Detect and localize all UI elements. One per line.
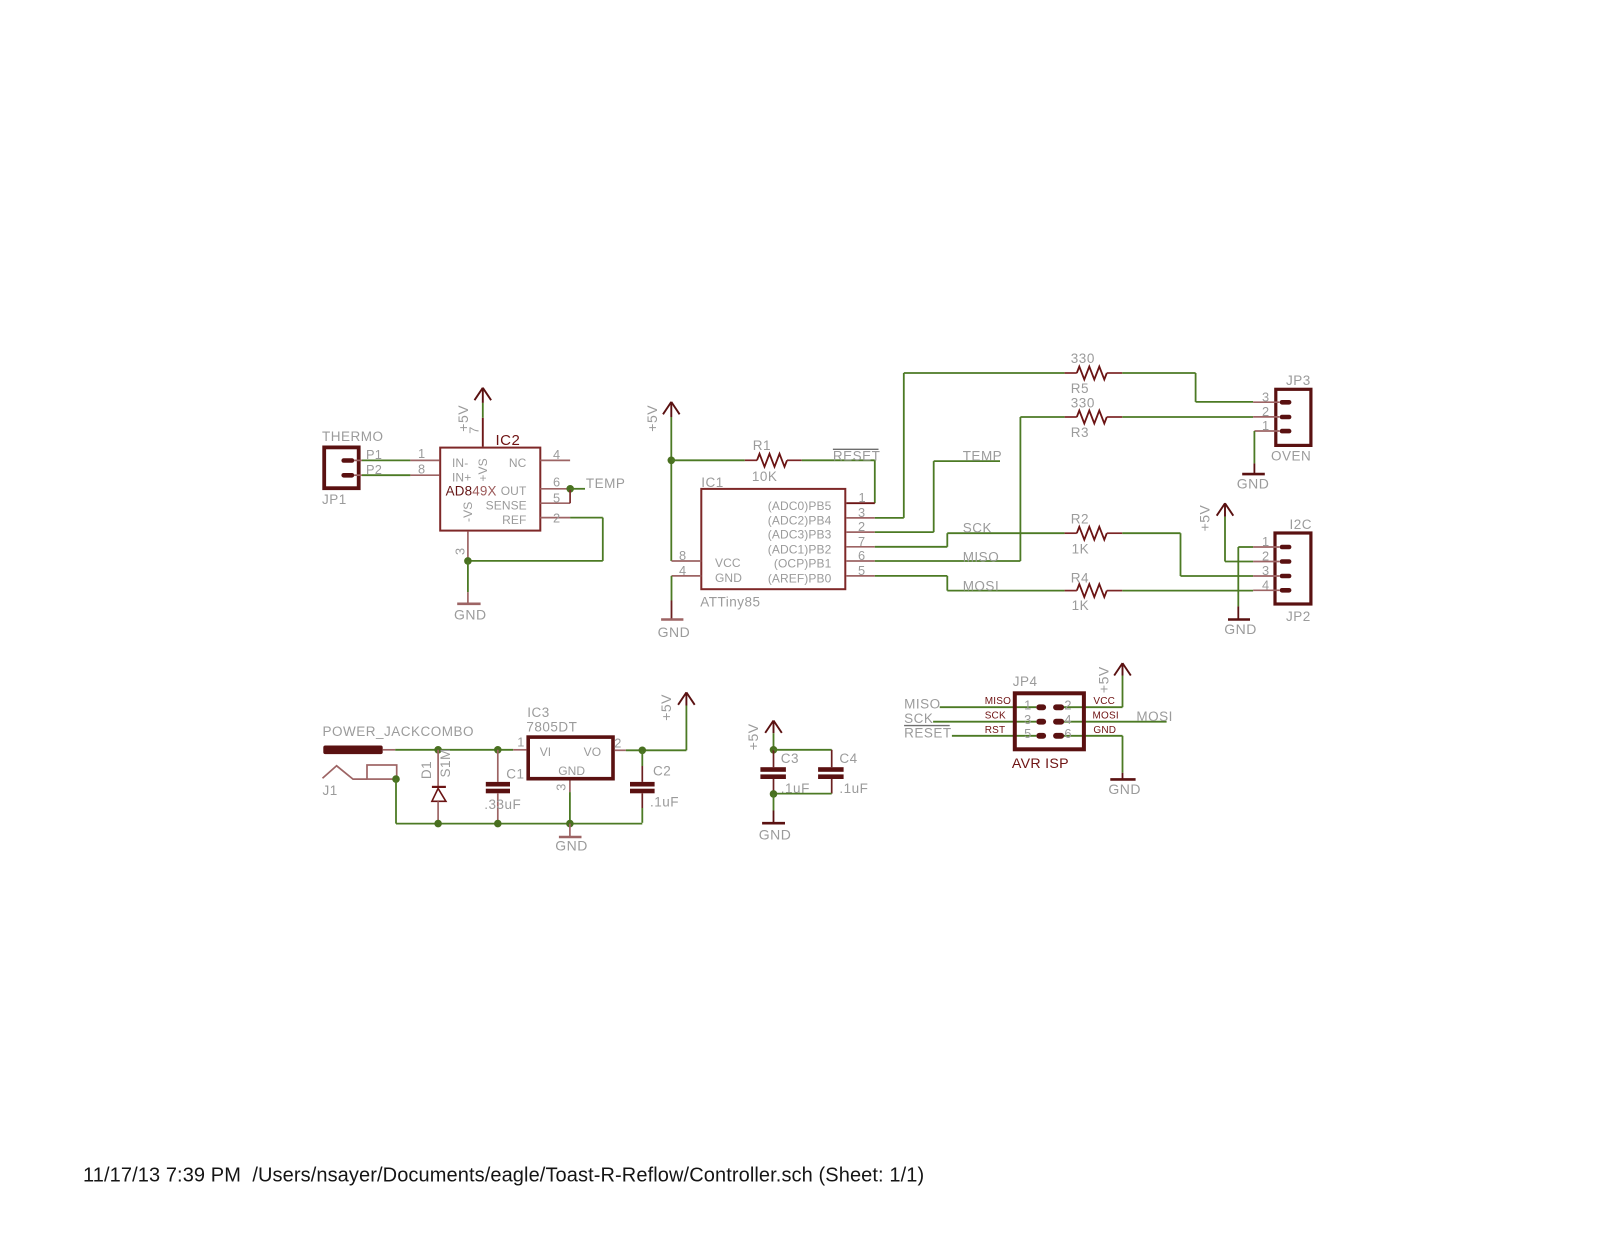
svg-text:1: 1	[1024, 698, 1031, 713]
svg-text:NC: NC	[509, 456, 527, 470]
svg-text:S1M: S1M	[438, 748, 453, 777]
value 330 (R5)	[1071, 351, 1095, 366]
IC2 pin 4 NC lead	[540, 459, 570, 461]
pin number 3 (JP4)	[1024, 712, 1031, 727]
value 10K	[752, 469, 778, 484]
IC2 pin 6 OUT lead	[540, 488, 566, 490]
svg-text:+5V: +5V	[1196, 504, 1212, 531]
JP4 pad 5	[1036, 733, 1046, 739]
pin number 4 (JP4)	[1064, 712, 1071, 727]
label +5V (IC3)	[658, 694, 674, 721]
IC2 pin 3 lead	[467, 532, 469, 561]
wire +5V to C3	[773, 733, 775, 750]
JP4 pin name RST	[985, 725, 1006, 736]
svg-text:1: 1	[1262, 534, 1269, 549]
J1 pin lead	[383, 749, 396, 751]
svg-text:.33uF: .33uF	[484, 797, 521, 812]
svg-text:IN+: IN+	[452, 471, 471, 485]
value 7805DT	[526, 720, 577, 735]
svg-text:10K: 10K	[752, 469, 778, 484]
svg-text:OVEN: OVEN	[1271, 449, 1311, 464]
svg-text:-VS: -VS	[461, 502, 475, 522]
svg-text:2: 2	[1064, 698, 1071, 713]
connector JP2	[1275, 533, 1311, 604]
svg-text:MOSI: MOSI	[963, 578, 1000, 593]
label GND (JP4)	[1108, 781, 1141, 797]
JP2 pin 1 lead	[1253, 546, 1280, 548]
resistor R2	[1065, 527, 1123, 540]
svg-text:1: 1	[517, 735, 524, 750]
IC1 pin 3 lead	[846, 517, 875, 519]
label +5V (JP2)	[1196, 504, 1212, 531]
wire +5V to R1	[671, 459, 745, 461]
net label RESET (JP4)	[904, 725, 952, 740]
wire C3 top to C4 top	[774, 749, 832, 751]
label GND (IC2)	[454, 606, 487, 622]
svg-text:R3: R3	[1071, 425, 1089, 440]
ground symbol (C3)	[762, 811, 785, 824]
wire MISO to JP4 pin 1	[940, 706, 1037, 708]
svg-text:RESET: RESET	[904, 725, 952, 740]
net label MISO (JP4)	[904, 696, 941, 711]
IC1 pin 8 lead	[672, 560, 702, 562]
net label TEMP (IC1)	[963, 448, 1003, 463]
wire R2 to JP2 pin 3	[1122, 533, 1253, 576]
wire R3 left to MISO riser	[1020, 416, 1064, 418]
svg-text:2: 2	[1262, 404, 1269, 419]
svg-text:GND: GND	[658, 624, 691, 640]
svg-text:(ADC2)PB4: (ADC2)PB4	[768, 514, 832, 528]
svg-text:1K: 1K	[1072, 541, 1090, 556]
label +5V (C3)	[745, 723, 761, 750]
power jack J1 center pin bar	[323, 746, 382, 755]
svg-text:I2C: I2C	[1290, 517, 1313, 532]
svg-text:+5V: +5V	[644, 405, 660, 432]
wire IC1 PB2 to R2 (SCK)	[875, 533, 1065, 547]
svg-text:J1: J1	[323, 783, 338, 798]
net label MOSI (IC1)	[963, 578, 1000, 593]
svg-text:GND: GND	[1237, 476, 1270, 492]
svg-text:REF: REF	[502, 513, 526, 527]
capacitor C3	[760, 750, 786, 794]
ground symbol (JP4)	[1110, 773, 1135, 780]
pin number 2 (JP4)	[1064, 698, 1071, 713]
net label SCK (IC1)	[963, 520, 992, 535]
value ATTiny85	[700, 595, 760, 610]
ground symbol (JP3)	[1242, 463, 1265, 474]
IC2 pin name OUT	[501, 484, 527, 498]
junction node at IC2 -VS	[464, 557, 472, 565]
svg-text:1K: 1K	[1072, 598, 1090, 613]
svg-text:GND: GND	[1224, 621, 1257, 637]
svg-text:D1: D1	[419, 761, 434, 779]
IC1 pin 4 lead	[672, 575, 702, 577]
svg-text:IN-: IN-	[452, 456, 468, 470]
pin number 2 (IC1)	[858, 519, 865, 534]
pin number 1 (IC3)	[517, 735, 524, 750]
IC1 pin name VCC	[715, 556, 741, 570]
value .1uF (C4)	[839, 781, 868, 796]
label GND (JP2)	[1224, 621, 1257, 637]
label IC1	[701, 475, 724, 490]
IC3 pin name VI	[540, 745, 552, 759]
svg-text:1: 1	[859, 490, 866, 505]
svg-text:RST: RST	[985, 725, 1006, 736]
pin number 2 (JP2)	[1262, 549, 1269, 564]
svg-text:R5: R5	[1071, 381, 1089, 396]
svg-text:MISO: MISO	[963, 550, 1000, 565]
JP4 pin name SCK	[985, 711, 1006, 722]
pin number 5 (IC1)	[858, 563, 865, 578]
svg-text:2: 2	[614, 736, 621, 751]
wire JP2 pin 1 to GND	[1238, 547, 1253, 606]
ground symbol (IC1)	[661, 601, 683, 620]
pin number 1 (JP2)	[1262, 534, 1269, 549]
svg-text:5: 5	[553, 491, 560, 506]
label +5V (JP4)	[1095, 666, 1111, 693]
JP3 pin 1 lead	[1254, 430, 1279, 432]
label C3	[781, 751, 799, 766]
net label SCK (JP4)	[904, 711, 933, 726]
JP4 pad 4	[1053, 719, 1064, 725]
junction node C1 top	[494, 746, 502, 754]
JP2 pin 4 lead	[1253, 589, 1280, 591]
svg-text:R4: R4	[1071, 571, 1089, 586]
wire R1 to RESET	[802, 459, 875, 461]
JP4 pad 2	[1053, 704, 1064, 710]
svg-text:+5V: +5V	[1095, 666, 1111, 693]
ground symbol (IC3)	[559, 824, 582, 837]
svg-text:VCC: VCC	[715, 556, 741, 570]
svg-text:C2: C2	[653, 763, 671, 778]
label C2	[653, 763, 671, 778]
svg-text:VO: VO	[584, 745, 602, 759]
svg-text:+5V: +5V	[658, 694, 674, 721]
IC2 pin 7 lead	[482, 418, 484, 447]
svg-text:TEMP: TEMP	[586, 476, 626, 491]
label JP2	[1286, 609, 1311, 624]
JP3 pin 3 lead	[1253, 401, 1280, 403]
svg-text:.1uF: .1uF	[650, 794, 679, 809]
svg-text:THERMO: THERMO	[322, 429, 384, 444]
label POWER_JACKCOMBO	[323, 724, 475, 739]
pin number 4 (JP2)	[1262, 578, 1269, 593]
svg-text:AVR ISP: AVR ISP	[1012, 756, 1069, 772]
junction node +5V/R1	[668, 457, 676, 465]
wire JP4 pin 2 to +5V	[1063, 676, 1122, 708]
pin number 5 (JP4)	[1024, 726, 1031, 741]
pin number 6 (JP4)	[1064, 726, 1071, 741]
svg-text:GND: GND	[558, 764, 585, 778]
wire RESET to IC1 pin 1	[874, 460, 876, 503]
net label TEMP (IC2)	[586, 476, 626, 491]
svg-text:2: 2	[1262, 549, 1269, 564]
JP3 pin 2 lead	[1253, 416, 1280, 418]
wire JP4 pin 4 to MOSI	[1063, 721, 1166, 723]
svg-text:(OCP)PB1: (OCP)PB1	[774, 557, 832, 571]
label GND (IC3)	[555, 838, 588, 854]
IC1 pin 7 lead	[846, 546, 875, 548]
wire IC3 GND to rail	[569, 792, 571, 823]
IC1 pin 6 lead	[846, 560, 875, 562]
junction node J1 sleeve	[392, 775, 400, 783]
svg-text:5: 5	[1024, 726, 1031, 741]
+5V supply symbol (JP4)	[1114, 663, 1131, 675]
wire -VS to GND	[467, 561, 469, 592]
label I2C	[1290, 517, 1313, 532]
wire IC3 VO to +5V	[626, 706, 687, 751]
J1 sleeve contact	[367, 765, 397, 779]
svg-text:+5V: +5V	[745, 723, 761, 750]
label JP3	[1286, 373, 1311, 388]
IC3 pin 3 lead	[569, 781, 571, 793]
svg-text:GND: GND	[715, 571, 742, 585]
svg-text:MISO: MISO	[904, 696, 941, 711]
resistor R5	[1065, 367, 1123, 380]
svg-text:OUT: OUT	[501, 484, 527, 498]
svg-text:R1: R1	[753, 438, 771, 453]
IC2 pin name IN-	[452, 456, 468, 470]
wire J1 to IC3 VI	[395, 749, 513, 751]
wire R5 to JP3 pin 3	[1122, 373, 1253, 402]
resistor R1	[745, 454, 802, 467]
+5V supply symbol (IC2)	[475, 388, 492, 403]
svg-text:2: 2	[553, 511, 560, 526]
IC1 pin 2 lead	[846, 531, 875, 533]
wire OUT to TEMP label	[570, 488, 585, 490]
value .1uF (C3)	[781, 781, 810, 796]
pin number 1 (JP4)	[1024, 698, 1031, 713]
svg-text:SCK: SCK	[904, 711, 933, 726]
pin number 8 (IC2 IN+)	[418, 462, 425, 477]
value 1K (R2)	[1072, 541, 1090, 556]
svg-text:POWER_JACKCOMBO: POWER_JACKCOMBO	[323, 724, 475, 739]
net label MISO (IC1)	[963, 550, 1000, 565]
label R1	[753, 438, 771, 453]
svg-text:(ADC3)PB3: (ADC3)PB3	[768, 528, 832, 542]
pin number 2	[553, 511, 560, 526]
value S1M (rotated)	[438, 748, 453, 777]
wire IC1 GND down	[671, 576, 673, 601]
svg-text:GND: GND	[1093, 725, 1116, 736]
+5V supply symbol (JP2)	[1217, 503, 1234, 516]
capacitor C4	[818, 750, 844, 794]
pin number 2 (IC3)	[614, 736, 621, 751]
wire IC1 PB1 to R3 riser (MISO)	[875, 417, 1021, 561]
svg-text:3: 3	[1262, 563, 1269, 578]
label GND (C3)	[759, 826, 792, 842]
label IC2	[496, 432, 521, 449]
wire REF to ground node	[468, 518, 603, 561]
svg-text:RESET: RESET	[833, 448, 881, 463]
wire C4 bottom to C3 bottom	[774, 793, 832, 795]
wire IC1 PB0 to R4 (MOSI)	[875, 576, 1065, 591]
pin number 4	[553, 447, 560, 462]
wire IC1 PB3 to TEMP label	[875, 461, 1000, 532]
IC2 pin name +VS (rotated)	[476, 458, 490, 481]
label JP1	[322, 492, 347, 507]
IC2 pin name REF	[502, 513, 526, 527]
svg-text:4: 4	[1064, 712, 1071, 727]
svg-text:(ADC0)PB5: (ADC0)PB5	[768, 499, 832, 513]
wire SCK to JP4 pin 3	[933, 721, 1036, 723]
IC2 pin name IN+	[452, 471, 471, 485]
pin number 3 (IC3, rotated)	[554, 783, 569, 790]
label R5	[1071, 381, 1089, 396]
IC3 pin 2 lead	[615, 749, 626, 751]
IC1 pin 1 lead	[846, 502, 875, 504]
IC1 pin name (ADC3)PB3	[768, 528, 832, 542]
bottom ground rail	[396, 823, 642, 825]
value .33uF	[484, 797, 521, 812]
pin number 8 (IC1)	[679, 548, 686, 563]
IC1 pin name (ADC2)PB4	[768, 514, 832, 528]
svg-text:TEMP: TEMP	[963, 448, 1003, 463]
ground symbol (JP2)	[1228, 606, 1250, 619]
IC2 pin name NC	[509, 456, 527, 470]
wire J1 to bottom rail	[395, 779, 397, 824]
voltage regulator IC3 body	[528, 737, 613, 779]
IC1 pin name GND	[715, 571, 742, 585]
svg-text:MISO: MISO	[985, 696, 1011, 707]
label THERMO	[322, 429, 384, 444]
label P1	[366, 447, 382, 462]
svg-text:3: 3	[1262, 389, 1269, 404]
footer sheet info	[83, 1165, 924, 1187]
junction node TEMP at IC2.OUT	[566, 485, 574, 493]
wire PB4 riser to R5	[904, 372, 1065, 374]
IC2 pin 2 REF lead	[540, 517, 570, 519]
svg-text:GND: GND	[555, 838, 588, 854]
svg-text:MOSI: MOSI	[1136, 709, 1173, 724]
pin number 2 (JP3)	[1262, 404, 1269, 419]
wire JP4 pin 6 to GND	[1063, 736, 1122, 773]
net label MOSI (JP4)	[1136, 709, 1173, 724]
wire +5V to IC2 pin 7	[482, 403, 484, 418]
svg-text:3: 3	[453, 548, 468, 555]
wire JP3 pin 1 to GND	[1253, 431, 1255, 463]
resistor R3	[1065, 411, 1123, 424]
value 330 (R3)	[1071, 395, 1095, 410]
label J1	[323, 783, 338, 798]
svg-text:SCK: SCK	[985, 711, 1006, 722]
JP4 pad 6	[1053, 733, 1064, 739]
resistor R4	[1065, 584, 1123, 597]
diode D1	[432, 750, 446, 824]
label C1	[506, 767, 524, 782]
connector JP3	[1276, 389, 1311, 445]
svg-text:IC1: IC1	[701, 475, 724, 490]
IC1 pin name (ADC0)PB5	[768, 499, 832, 513]
IC2 pin name -VS (rotated)	[461, 502, 475, 522]
svg-text:MOSI: MOSI	[1093, 711, 1119, 722]
svg-text:11/17/13 7:39 PM /Users/nsaye: 11/17/13 7:39 PM /Users/nsayer/Documents…	[83, 1165, 924, 1187]
JP4 pin name VCC	[1093, 696, 1115, 707]
svg-text:JP4: JP4	[1013, 674, 1038, 689]
wire IC1 PB4 to R5 riser	[875, 373, 904, 518]
svg-text:ATTiny85: ATTiny85	[700, 595, 760, 610]
label JP4	[1013, 674, 1038, 689]
value AD849X	[446, 484, 497, 499]
label +5V (IC1)	[644, 405, 660, 432]
ground symbol (IC2)	[457, 592, 480, 604]
svg-text:3: 3	[554, 783, 569, 790]
IC3 pin 1 lead	[513, 749, 526, 751]
svg-text:330: 330	[1071, 351, 1095, 366]
IC3 pin name VO	[584, 745, 602, 759]
svg-text:7805DT: 7805DT	[526, 720, 577, 735]
wire JP1.P2 to IC2.IN+	[354, 474, 439, 476]
J1 switch contact	[323, 766, 368, 779]
svg-text:GND: GND	[759, 826, 792, 842]
pin number 6 (IC1)	[858, 548, 865, 563]
op-amp IC2 body	[440, 448, 540, 531]
+5V supply symbol (C3)	[765, 721, 782, 734]
svg-text:JP2: JP2	[1286, 609, 1311, 624]
svg-text:+VS: +VS	[476, 458, 490, 481]
svg-text:VI: VI	[540, 745, 552, 759]
svg-text:IC3: IC3	[527, 705, 550, 720]
connector JP1	[324, 447, 359, 488]
pin number 4 (IC1)	[679, 563, 686, 578]
wire JP2 pin 2 to +5V	[1225, 517, 1253, 562]
svg-text:+5V: +5V	[455, 405, 471, 432]
junction node C1 bottom	[494, 820, 502, 828]
svg-text:GND: GND	[1108, 781, 1141, 797]
label R3	[1071, 425, 1089, 440]
pin number 3 (JP2)	[1262, 563, 1269, 578]
JP4 pin name MOSI	[1093, 711, 1119, 722]
svg-text:JP3: JP3	[1286, 373, 1311, 388]
JP2 pin 2 lead	[1253, 561, 1280, 563]
junction node D1 bottom	[434, 820, 442, 828]
pin number 3 (rotated)	[453, 548, 468, 555]
JP4 pad 1	[1036, 704, 1046, 710]
svg-text:1: 1	[418, 446, 425, 461]
label IC3	[527, 705, 550, 720]
IC2 pin 5 SENSE lead	[540, 502, 570, 504]
label P2	[366, 462, 382, 477]
pin number 3 (IC1)	[858, 505, 865, 520]
pin number 1 (IC1)	[859, 490, 866, 505]
label OVEN	[1271, 449, 1311, 464]
svg-text:SCK: SCK	[963, 520, 992, 535]
value 1K (R4)	[1072, 598, 1090, 613]
junction node C2 top	[639, 747, 647, 755]
svg-text:VCC: VCC	[1093, 696, 1115, 707]
wire JP1.P1 to IC2.IN-	[354, 459, 439, 461]
pin number 7 (IC1)	[858, 534, 865, 549]
svg-text:(ADC1)PB2: (ADC1)PB2	[768, 542, 832, 556]
label GND (IC1)	[658, 624, 691, 640]
IC1 pin 5 lead	[846, 575, 875, 577]
wire R3 to JP3 pin 2	[1122, 416, 1253, 418]
IC2 pin name SENSE	[486, 499, 527, 513]
wire +5V rail to IC1 VCC	[670, 417, 672, 561]
svg-text:GND: GND	[454, 606, 487, 622]
junction node C3 top	[770, 746, 778, 754]
svg-text:C4: C4	[839, 751, 857, 766]
pin number 5	[553, 491, 560, 506]
junction node C3 bottom	[770, 790, 778, 798]
JP4 pin name GND	[1093, 725, 1116, 736]
label R2	[1071, 512, 1089, 527]
svg-text:(AREF)PB0: (AREF)PB0	[768, 572, 832, 586]
junction node D1 top	[434, 746, 442, 754]
+5V supply symbol (IC3)	[678, 692, 695, 705]
JP4 pin name MISO	[985, 696, 1011, 707]
microcontroller IC1 body	[701, 489, 845, 589]
